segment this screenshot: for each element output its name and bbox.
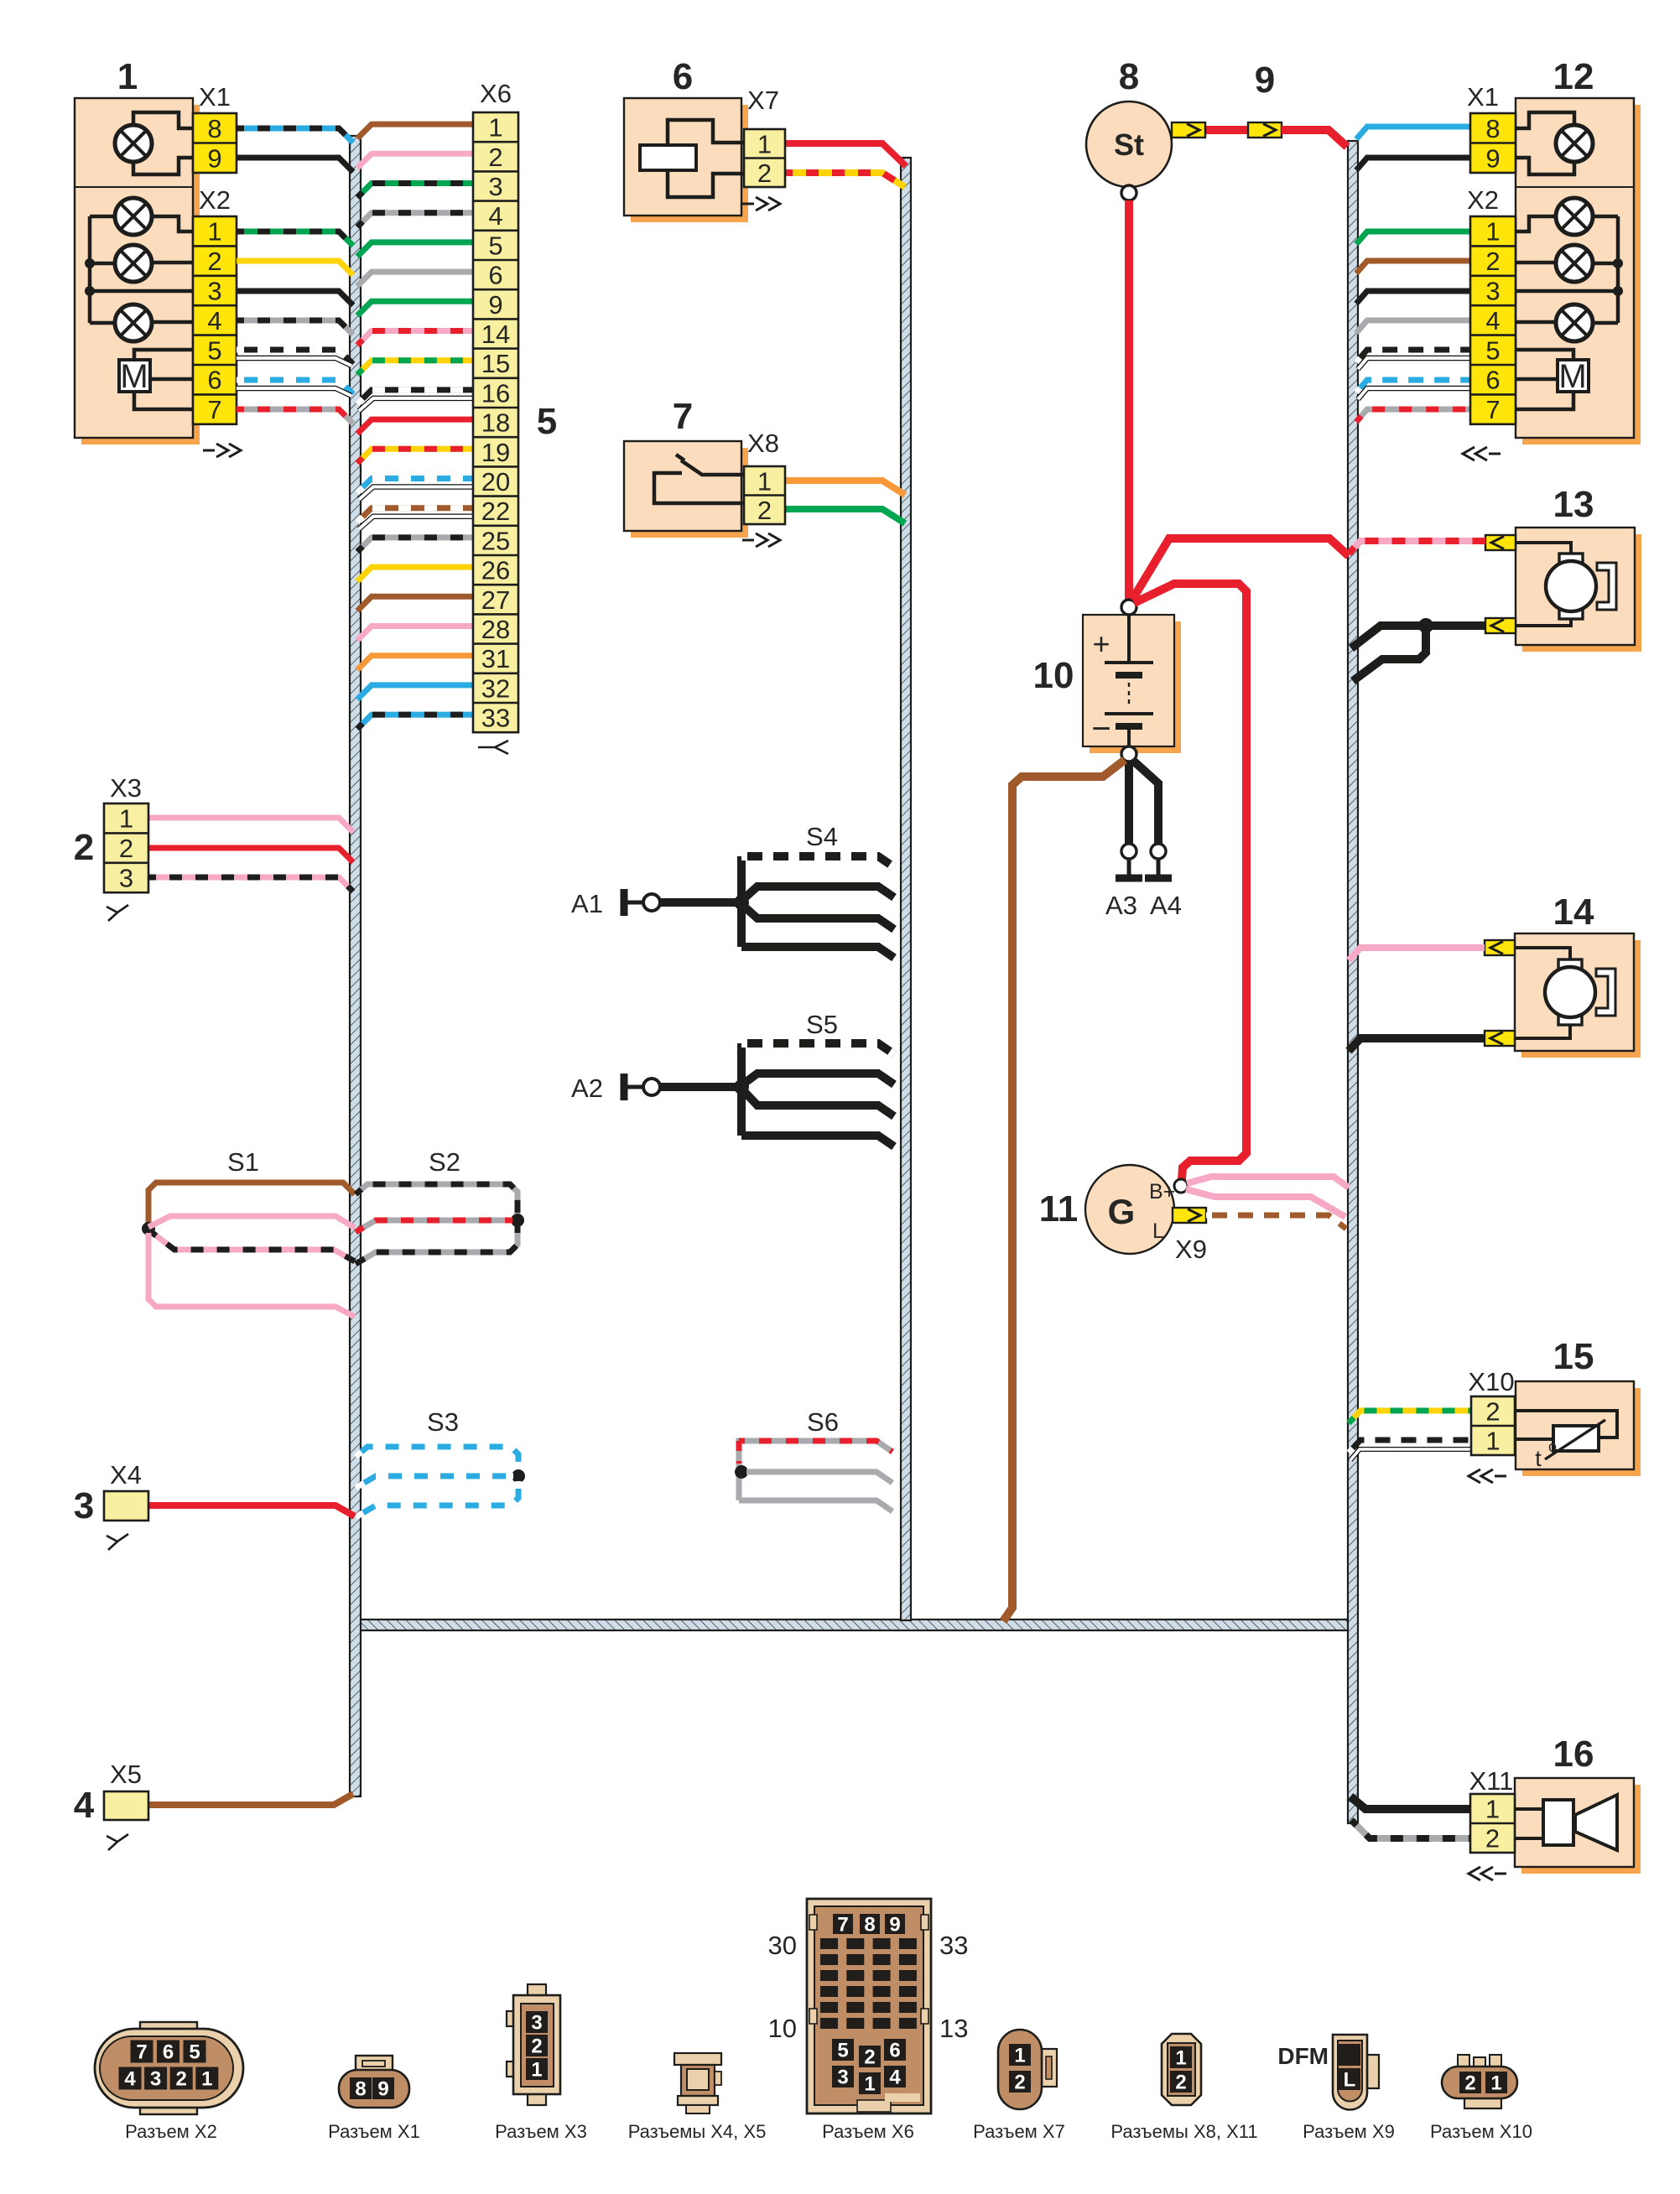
svg-text:7: 7 bbox=[136, 2041, 147, 2064]
node S2 bbox=[511, 1214, 524, 1227]
wire 13 black branch lower bbox=[1353, 631, 1426, 681]
svg-text:22: 22 bbox=[481, 497, 510, 526]
wire X6-31 bbox=[357, 656, 473, 670]
wire St red to connector 9 bbox=[1172, 126, 1283, 134]
svg-text:4: 4 bbox=[74, 1785, 95, 1826]
motor M comp1 bbox=[119, 360, 150, 392]
svg-text:Разъем X2: Разъем X2 bbox=[125, 2121, 217, 2142]
pinout drawing connector X3 bbox=[528, 1984, 546, 1997]
svg-text:Разъем X7: Разъем X7 bbox=[973, 2121, 1065, 2142]
svg-text:8: 8 bbox=[864, 1914, 875, 1937]
thermistor symbol bbox=[1515, 1411, 1617, 1438]
wire generator pink upper bbox=[1187, 1177, 1349, 1188]
svg-text:15: 15 bbox=[481, 349, 510, 378]
svg-text:15: 15 bbox=[1553, 1336, 1594, 1377]
svg-text:16: 16 bbox=[1553, 1734, 1594, 1775]
svg-text:t: t bbox=[1535, 1446, 1542, 1471]
svg-text:S2: S2 bbox=[429, 1147, 460, 1177]
svg-text:2: 2 bbox=[1485, 1397, 1500, 1427]
svg-text:8: 8 bbox=[207, 114, 221, 143]
pinout drawing connector X1 bbox=[356, 2056, 393, 2072]
svg-text:5: 5 bbox=[537, 401, 557, 442]
wire X3-2 red bbox=[148, 848, 353, 862]
wire 12 X2-1 green bbox=[1356, 231, 1470, 244]
lamp a comp12 bbox=[1556, 198, 1593, 235]
wire X2-1 green/black bbox=[237, 231, 353, 246]
svg-text:5: 5 bbox=[207, 335, 221, 365]
svg-text:4: 4 bbox=[1485, 306, 1500, 335]
svg-text:20: 20 bbox=[481, 467, 510, 497]
svg-text:1: 1 bbox=[1485, 217, 1500, 247]
svg-text:X10: X10 bbox=[1468, 1367, 1514, 1396]
svg-text:S6: S6 bbox=[807, 1407, 839, 1437]
svg-text:2: 2 bbox=[1175, 2072, 1186, 2094]
wire X6-32 bbox=[357, 685, 473, 699]
svg-text:1: 1 bbox=[119, 804, 133, 834]
arrow out X7 bbox=[742, 197, 780, 211]
arrow out X8 bbox=[742, 533, 780, 547]
pinout drawing connector X10 bbox=[1458, 2055, 1469, 2068]
wire X2-4 gray/black bbox=[237, 320, 353, 335]
wire X6-1 bbox=[357, 124, 473, 138]
component 1 left headlamp block body bbox=[81, 105, 200, 445]
svg-text:3: 3 bbox=[150, 2068, 161, 2091]
svg-text:14: 14 bbox=[481, 320, 510, 349]
battery plus terminal bbox=[1121, 600, 1136, 615]
wire X3-1 pink bbox=[148, 818, 353, 832]
svg-text:3: 3 bbox=[207, 277, 221, 306]
wire X2-2 yellow bbox=[237, 261, 353, 275]
svg-text:Разъемы X4, X5: Разъемы X4, X5 bbox=[628, 2121, 767, 2142]
comp 14 pin2 connector bbox=[1485, 1031, 1515, 1046]
svg-text:X6: X6 bbox=[480, 79, 512, 108]
connector X9 on generator bbox=[1173, 1208, 1206, 1223]
wire X6-15 bbox=[357, 361, 473, 375]
wire 13 black branch upper bbox=[1351, 626, 1426, 648]
svg-text:S4: S4 bbox=[806, 822, 838, 851]
svg-text:4: 4 bbox=[488, 201, 502, 231]
svg-text:M: M bbox=[1558, 358, 1586, 395]
wire S2 gray/black upper bbox=[356, 1184, 518, 1215]
wire X6-33 bbox=[357, 715, 473, 729]
svg-text:X7: X7 bbox=[747, 86, 779, 115]
svg-text:S3: S3 bbox=[427, 1407, 459, 1437]
svg-text:3: 3 bbox=[488, 172, 502, 201]
generator B+ terminal bbox=[1174, 1179, 1188, 1193]
svg-text:33: 33 bbox=[939, 1931, 968, 1960]
svg-text:2: 2 bbox=[1485, 247, 1500, 276]
wire S3 blue/white upper bbox=[356, 1447, 518, 1471]
wire X6-2 bbox=[357, 153, 473, 168]
node 13 black bbox=[1418, 618, 1433, 633]
svg-text:X3: X3 bbox=[110, 773, 142, 803]
svg-text:9: 9 bbox=[377, 2078, 388, 2101]
svg-text:6: 6 bbox=[889, 2040, 900, 2062]
wire X5 brown bbox=[148, 1794, 353, 1805]
connector X5 pin bbox=[104, 1791, 148, 1820]
svg-text:19: 19 bbox=[481, 438, 510, 467]
wire X10-2 yellow/green bbox=[1349, 1411, 1471, 1423]
svg-text:18: 18 bbox=[481, 408, 510, 438]
starter terminal bbox=[1121, 185, 1136, 200]
svg-text:S5: S5 bbox=[806, 1010, 838, 1039]
svg-text:A2: A2 bbox=[571, 1074, 603, 1103]
wire 14 black bbox=[1349, 1038, 1485, 1051]
svg-text:2: 2 bbox=[176, 2068, 187, 2091]
battery minus terminal bbox=[1121, 746, 1136, 762]
svg-text:1: 1 bbox=[207, 217, 221, 247]
wire S2 gray/red middle bbox=[356, 1220, 512, 1232]
svg-text:1: 1 bbox=[1485, 1427, 1500, 1456]
svg-text:3: 3 bbox=[1485, 277, 1500, 306]
wire S3 blue/white lower bbox=[356, 1481, 518, 1517]
wire X7-1 red bbox=[785, 143, 906, 166]
svg-text:X1: X1 bbox=[1467, 82, 1499, 112]
wire S4 black/white top bbox=[741, 856, 894, 867]
fork symbol X5 bbox=[107, 1834, 128, 1850]
starter St bbox=[1086, 101, 1172, 187]
svg-text:X5: X5 bbox=[110, 1760, 142, 1789]
wire 12 X2-2 brown bbox=[1356, 261, 1470, 273]
svg-text:2: 2 bbox=[1464, 2072, 1475, 2095]
wire generator pink lower bbox=[1186, 1189, 1345, 1217]
svg-text:3: 3 bbox=[119, 864, 133, 893]
ground A4 bbox=[1151, 844, 1166, 859]
svg-text:13: 13 bbox=[939, 2014, 968, 2043]
component 6 body bbox=[631, 105, 748, 222]
svg-text:33: 33 bbox=[481, 704, 510, 733]
wire S1 pink lower bbox=[148, 1233, 355, 1317]
S6 bracket bbox=[736, 1441, 742, 1500]
svg-text:27: 27 bbox=[481, 585, 510, 615]
wire battery red to generator bbox=[1134, 584, 1246, 1179]
pinout drawing connector X6 bbox=[807, 1899, 931, 2113]
svg-text:8: 8 bbox=[1119, 56, 1139, 97]
wire X2-7 gray/red bbox=[237, 409, 353, 424]
wire battery minus to A4 bbox=[1132, 760, 1158, 844]
component 12 right headlamp body bbox=[1522, 105, 1641, 445]
comp 13 pin1 connector bbox=[1485, 535, 1516, 550]
svg-text:1: 1 bbox=[864, 2073, 875, 2096]
comp1 internal bus bbox=[88, 216, 92, 323]
svg-text:13: 13 bbox=[1553, 484, 1594, 525]
node S3 bbox=[512, 1469, 525, 1483]
svg-text:3: 3 bbox=[74, 1485, 94, 1526]
svg-text:3: 3 bbox=[531, 2012, 542, 2035]
svg-text:L: L bbox=[1344, 2069, 1356, 2092]
wire S3 blue/white middle bbox=[356, 1476, 513, 1488]
svg-text:6: 6 bbox=[207, 366, 221, 395]
wire X6-5 bbox=[357, 242, 473, 257]
wire X8-1 orange bbox=[785, 481, 905, 495]
comp12 internal bus bbox=[1616, 216, 1620, 323]
wire X6-20 bbox=[357, 479, 473, 493]
wire X3-3 pink/black bbox=[148, 877, 353, 892]
connector X2 comp1 pins bbox=[193, 216, 237, 424]
svg-text:X9: X9 bbox=[1175, 1235, 1207, 1264]
svg-text:6: 6 bbox=[1485, 366, 1500, 395]
wire 12 X2-4 gray bbox=[1356, 320, 1470, 333]
wire X4 red bbox=[148, 1505, 355, 1516]
svg-text:1: 1 bbox=[488, 113, 502, 143]
wire X7-2 yellow/red bbox=[785, 173, 905, 187]
svg-text:9: 9 bbox=[488, 290, 502, 320]
svg-text:X11: X11 bbox=[1469, 1766, 1514, 1796]
wire S1 brown bbox=[148, 1183, 355, 1223]
node S1 bbox=[142, 1222, 155, 1235]
svg-text:31: 31 bbox=[481, 644, 510, 673]
wire X6-14 bbox=[357, 331, 473, 346]
node S4 bbox=[734, 895, 749, 910]
svg-text:1: 1 bbox=[1014, 2045, 1025, 2067]
wire X6-4 bbox=[357, 213, 473, 227]
connector X3 pins bbox=[104, 803, 148, 892]
wire S5 black second bbox=[741, 1074, 894, 1085]
motor symbol comp 13 bbox=[1559, 554, 1583, 569]
connector X10 pins bbox=[1471, 1396, 1515, 1455]
svg-text:12: 12 bbox=[1553, 56, 1594, 97]
svg-text:A4: A4 bbox=[1150, 891, 1182, 920]
lamp a comp1 bbox=[115, 198, 152, 235]
svg-text:1: 1 bbox=[1175, 2047, 1186, 2070]
wire 13 pink/red bbox=[1349, 541, 1485, 554]
motor symbol comp 14 bbox=[1558, 959, 1582, 975]
lamp b comp1 bbox=[115, 245, 152, 282]
wire X6-19 bbox=[357, 449, 473, 463]
wire St to battery red bbox=[1125, 200, 1133, 600]
wire 12 X2-5 black/white bbox=[1356, 350, 1470, 362]
wire X6-3 bbox=[357, 184, 473, 198]
component 14 body bbox=[1521, 940, 1641, 1058]
generator G bbox=[1085, 1165, 1174, 1254]
svg-text:1: 1 bbox=[1485, 1795, 1500, 1824]
wire S4 black third bbox=[741, 904, 894, 929]
connector X11 pins bbox=[1470, 1794, 1515, 1853]
wire S5 black bottom bbox=[741, 1136, 894, 1146]
lamp high beam comp12 bbox=[1556, 125, 1593, 162]
svg-text:X1: X1 bbox=[199, 82, 231, 112]
component 7 switch icon bbox=[654, 455, 743, 503]
pinout drawing connector X2 bbox=[140, 2022, 197, 2035]
connector X1 comp1 pins bbox=[193, 113, 237, 173]
horn symbol bbox=[1543, 1800, 1573, 1845]
wire S1 pink upper bbox=[148, 1216, 355, 1228]
connector X8 pins bbox=[744, 466, 785, 524]
wire X8-2 green bbox=[785, 509, 905, 523]
wire 12 X1-9 black bbox=[1356, 158, 1470, 170]
svg-text:1: 1 bbox=[201, 2068, 212, 2091]
svg-text:4: 4 bbox=[889, 2067, 901, 2089]
wire X6-28 bbox=[357, 626, 473, 641]
wire S6 gray bottom bbox=[739, 1500, 892, 1511]
svg-text:S1: S1 bbox=[227, 1147, 259, 1177]
wire 12 X2-7 gray/red bbox=[1356, 409, 1470, 422]
svg-text:7: 7 bbox=[1485, 395, 1500, 424]
svg-text:DFM: DFM bbox=[1277, 2043, 1329, 2069]
pinout drawing connectors X8 X11 bbox=[1162, 2034, 1201, 2105]
wire S4 black bottom bbox=[741, 947, 894, 958]
comp 13 pin2 connector bbox=[1485, 618, 1516, 633]
svg-text:X8: X8 bbox=[747, 429, 779, 458]
svg-text:A3: A3 bbox=[1105, 891, 1137, 920]
component 7 body bbox=[631, 448, 748, 538]
svg-text:Разъем X1: Разъем X1 bbox=[328, 2121, 420, 2142]
svg-text:St: St bbox=[1114, 127, 1144, 162]
lamp b comp12 bbox=[1556, 245, 1593, 282]
svg-text:9: 9 bbox=[1485, 143, 1500, 173]
wire A2 to S5 bbox=[660, 1083, 741, 1091]
component 13 body bbox=[1522, 534, 1641, 652]
lamp c comp1 bbox=[115, 304, 152, 341]
component 15 body bbox=[1522, 1388, 1641, 1476]
svg-text:8: 8 bbox=[1485, 114, 1500, 143]
wire harness left vertical trunk bbox=[350, 136, 361, 1796]
svg-text:7: 7 bbox=[837, 1914, 848, 1937]
fork symbol X3 bbox=[107, 905, 128, 921]
svg-text:+: + bbox=[1092, 626, 1110, 661]
node S5 bbox=[734, 1079, 749, 1094]
svg-text:2: 2 bbox=[1014, 2072, 1025, 2094]
wire X6-18 bbox=[357, 419, 473, 434]
svg-text:6: 6 bbox=[673, 56, 693, 97]
svg-text:7: 7 bbox=[207, 395, 221, 424]
svg-text:30: 30 bbox=[768, 1931, 797, 1960]
arrow in X10 bbox=[1469, 1469, 1506, 1483]
svg-text:14: 14 bbox=[1553, 892, 1594, 933]
comp 13 internal wires bbox=[1515, 543, 1571, 626]
wire battery minus brown to harness bbox=[1003, 760, 1125, 1621]
svg-text:A1: A1 bbox=[571, 889, 603, 918]
svg-text:7: 7 bbox=[673, 396, 693, 437]
wire X6-22 bbox=[357, 508, 473, 523]
wire X11-1 black bbox=[1350, 1796, 1470, 1809]
wire X11-2 gray/black bbox=[1351, 1820, 1470, 1838]
svg-text:2: 2 bbox=[74, 827, 94, 868]
component 6 icon bbox=[668, 120, 744, 147]
svg-text:2: 2 bbox=[119, 834, 133, 863]
wire S5 black third bbox=[741, 1089, 894, 1116]
wire battery red to 13 bbox=[1132, 538, 1349, 600]
connector 9 bbox=[1248, 122, 1282, 138]
svg-text:1: 1 bbox=[1490, 2072, 1501, 2095]
svg-text:1: 1 bbox=[757, 466, 772, 496]
svg-text:6: 6 bbox=[163, 2041, 174, 2064]
S4 bracket bbox=[737, 856, 746, 947]
svg-text:8: 8 bbox=[355, 2078, 366, 2101]
ground A3 bbox=[1121, 844, 1136, 859]
svg-text:Разъем X3: Разъем X3 bbox=[495, 2121, 587, 2142]
svg-text:X4: X4 bbox=[110, 1460, 142, 1490]
svg-text:M: M bbox=[120, 358, 148, 395]
wire X6-27 bbox=[357, 596, 473, 611]
wire X6-26 bbox=[357, 567, 473, 581]
connector X2 comp12 pins bbox=[1470, 216, 1516, 424]
wire X1-9 black bbox=[237, 158, 353, 172]
svg-text:4: 4 bbox=[124, 2068, 136, 2091]
node S6 bbox=[735, 1465, 748, 1479]
svg-text:5: 5 bbox=[837, 2040, 848, 2062]
svg-text:2: 2 bbox=[864, 2046, 875, 2069]
wire X6-6 bbox=[357, 272, 473, 286]
wire S5 black/white top bbox=[741, 1043, 894, 1054]
comp 14 internal wires bbox=[1514, 948, 1570, 1038]
svg-text:1: 1 bbox=[117, 56, 138, 97]
wire 12 X1-8 blue bbox=[1356, 127, 1470, 139]
svg-text:L: L bbox=[1152, 1219, 1164, 1243]
wire red 9 to harness bbox=[1282, 130, 1347, 147]
wire X6-16 bbox=[357, 390, 473, 404]
wire X6-9 bbox=[357, 301, 473, 315]
lamp c comp12 bbox=[1556, 304, 1593, 341]
svg-text:32: 32 bbox=[481, 673, 510, 703]
svg-text:G: G bbox=[1108, 1192, 1136, 1231]
svg-text:26: 26 bbox=[481, 556, 510, 585]
svg-text:4: 4 bbox=[207, 306, 221, 335]
svg-text:11: 11 bbox=[1039, 1188, 1079, 1230]
wire X2-3 black bbox=[237, 291, 353, 305]
svg-text:6: 6 bbox=[488, 261, 502, 290]
svg-text:25: 25 bbox=[481, 526, 510, 555]
connector X7 pins bbox=[744, 129, 785, 187]
svg-text:2: 2 bbox=[757, 496, 772, 525]
arrow out comp1 bbox=[203, 444, 241, 457]
svg-text:1: 1 bbox=[531, 2059, 542, 2082]
svg-text:10: 10 bbox=[1033, 655, 1074, 696]
svg-text:B+: B+ bbox=[1149, 1180, 1175, 1204]
wire 14 pink bbox=[1349, 948, 1485, 960]
lamp high beam comp1 bbox=[115, 125, 152, 162]
wire S4 black second bbox=[741, 886, 894, 901]
connector X4 pin bbox=[104, 1491, 148, 1521]
svg-text:1: 1 bbox=[757, 129, 772, 159]
svg-text:5: 5 bbox=[1485, 335, 1500, 365]
wire X10-1 black/white bbox=[1349, 1440, 1471, 1453]
svg-text:9: 9 bbox=[889, 1914, 900, 1937]
wire X2-6 blue/white bbox=[237, 380, 353, 394]
connector X1 comp12 pins bbox=[1470, 113, 1516, 173]
svg-text:2: 2 bbox=[1485, 1824, 1500, 1853]
wire harness middle vertical trunk bbox=[901, 158, 911, 1620]
fork symbol below X6 bbox=[478, 741, 508, 754]
svg-text:28: 28 bbox=[481, 615, 510, 644]
svg-text:Разъем X9: Разъем X9 bbox=[1303, 2121, 1395, 2142]
comp 14 pin1 connector bbox=[1485, 940, 1515, 955]
wire 13 black bbox=[1426, 621, 1485, 630]
wire S1 pink/black dashed bbox=[150, 1231, 355, 1261]
wire X2-5 black/white bbox=[237, 350, 353, 364]
wire battery minus to A3 bbox=[1125, 762, 1133, 844]
wire A1 to S4 bbox=[660, 898, 741, 907]
svg-text:9: 9 bbox=[1255, 60, 1275, 101]
svg-text:2: 2 bbox=[207, 247, 221, 276]
svg-text:3: 3 bbox=[837, 2067, 848, 2089]
svg-text:2: 2 bbox=[757, 159, 772, 188]
svg-text:Разъем X10: Разъем X10 bbox=[1430, 2121, 1532, 2142]
svg-text:X2: X2 bbox=[1467, 185, 1499, 215]
wire harness right vertical trunk bbox=[1348, 141, 1358, 1823]
svg-text:16: 16 bbox=[481, 378, 510, 408]
wire X6-25 bbox=[357, 538, 473, 552]
svg-text:9: 9 bbox=[207, 143, 221, 173]
svg-text:X2: X2 bbox=[199, 185, 231, 215]
arrow in comp12 bbox=[1463, 447, 1501, 460]
S5 bracket bbox=[737, 1043, 746, 1136]
wire harness horizontal trunk bbox=[351, 1620, 1355, 1630]
svg-text:5: 5 bbox=[189, 2041, 200, 2064]
svg-text:2: 2 bbox=[531, 2035, 542, 2058]
wire X9 brown/white bbox=[1206, 1215, 1346, 1229]
wire S6 gray/red top bbox=[739, 1441, 892, 1452]
